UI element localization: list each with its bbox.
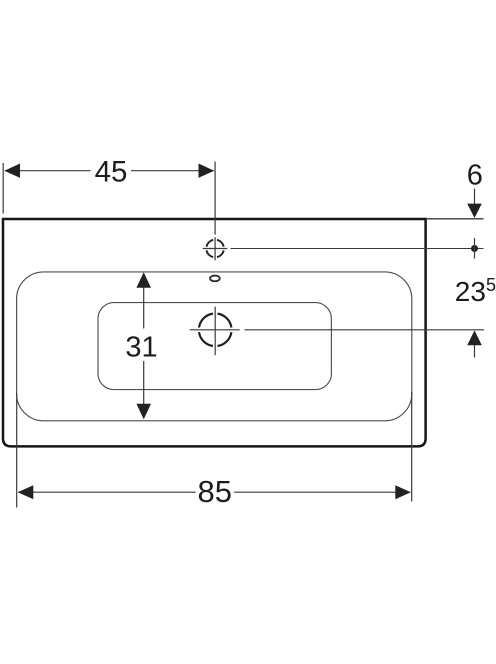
drain centreline to right xyxy=(245,329,485,331)
dim 6 arrow down xyxy=(467,204,482,218)
tap centreline to dimension dot xyxy=(231,248,484,250)
svg-text:31: 31 xyxy=(125,332,157,364)
washbasin outer outline xyxy=(3,219,426,446)
dim 85 extension line right xyxy=(411,392,413,502)
svg-text:235: 235 xyxy=(455,275,496,307)
dim 85 extension line left xyxy=(16,393,18,508)
dimension point dot xyxy=(471,245,478,252)
dim 45 arrow right xyxy=(199,164,215,178)
dim 31 arrow down xyxy=(136,404,151,420)
dim 31 line lower xyxy=(143,361,145,418)
drain crosshair horizontal xyxy=(190,329,240,331)
svg-text:85: 85 xyxy=(197,474,231,509)
basin rim rounded rectangle xyxy=(17,272,412,421)
dim 85 arrow right xyxy=(395,485,411,499)
top edge extension line xyxy=(427,218,484,220)
dim 45 arrow left xyxy=(4,164,20,178)
dim 85 line left segment xyxy=(19,491,196,493)
overflow slot xyxy=(210,276,220,282)
dim 31 arrow up xyxy=(136,272,151,288)
tap hole centreline vertical lower xyxy=(214,237,216,260)
dim 45 line right segment xyxy=(131,170,214,172)
tap hole xyxy=(207,240,224,257)
drain crosshair vertical xyxy=(214,307,216,356)
inner basin rounded rectangle xyxy=(98,303,331,390)
dim 23.5 arrow up xyxy=(467,330,482,345)
dim 85 line right segment xyxy=(234,491,410,493)
drain xyxy=(199,314,231,346)
svg-text:6: 6 xyxy=(467,159,483,191)
dim 45 extension line left xyxy=(2,163,4,214)
dim 31 line upper xyxy=(143,274,145,329)
svg-text:45: 45 xyxy=(95,156,128,189)
tap hole centreline vertical upper xyxy=(214,162,216,235)
dim 85 arrow left xyxy=(18,485,34,499)
dim 45 line left segment xyxy=(5,170,91,172)
dim 6 leader xyxy=(474,189,476,206)
dimension point tick xyxy=(474,238,476,259)
tap hole horizontal tick xyxy=(203,248,228,250)
dim 23.5 leader xyxy=(474,345,476,358)
